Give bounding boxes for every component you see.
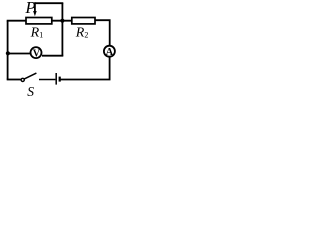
svg-text:A: A [106, 47, 114, 58]
svg-text:1: 1 [39, 31, 43, 40]
svg-text:S: S [27, 84, 34, 97]
svg-text:P: P [24, 0, 35, 17]
svg-text:R: R [30, 26, 40, 41]
svg-text:2: 2 [84, 31, 88, 40]
svg-text:V: V [33, 48, 41, 59]
svg-text:R: R [75, 26, 85, 41]
